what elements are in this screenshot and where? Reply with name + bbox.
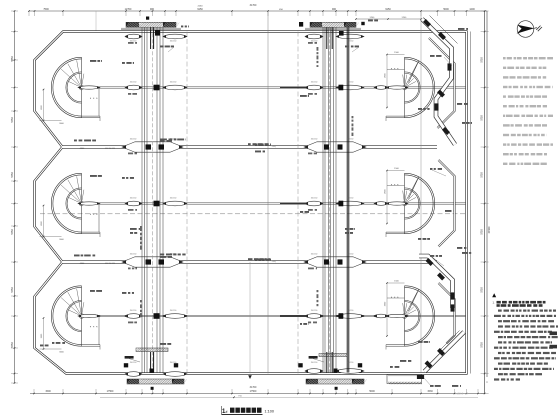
svg-text:5750: 5750: [481, 342, 484, 348]
svg-text:5750: 5750: [481, 229, 484, 235]
svg-text:150 150: 150 150: [311, 82, 318, 84]
svg-text:150 150: 150 150: [311, 139, 318, 141]
svg-text:150 150: 150 150: [347, 41, 354, 43]
svg-text:5750: 5750: [11, 229, 14, 235]
svg-text:150 150: 150 150: [347, 139, 354, 141]
svg-text:31700: 31700: [250, 386, 257, 389]
svg-text:150 150: 150 150: [347, 362, 354, 364]
svg-text:5000: 5000: [443, 8, 449, 11]
svg-text:5750: 5750: [481, 287, 484, 293]
svg-text:150 150: 150 150: [170, 310, 177, 312]
svg-text:150 150: 150 150: [311, 254, 318, 256]
svg-text:5750: 5750: [11, 172, 14, 178]
svg-text:150 150: 150 150: [311, 198, 318, 200]
svg-text:150 150 150: 150 150 150: [105, 263, 115, 265]
svg-text:150 150: 150 150: [130, 362, 137, 364]
svg-text:150 150: 150 150: [130, 198, 137, 200]
svg-text:150 150: 150 150: [347, 82, 354, 84]
svg-text:5000: 5000: [369, 390, 375, 393]
svg-text:5750: 5750: [481, 172, 484, 178]
svg-text:150 150: 150 150: [130, 82, 137, 84]
svg-text:150 150: 150 150: [170, 362, 177, 364]
svg-text:150 150: 150 150: [311, 310, 318, 312]
svg-text:17500: 17500: [250, 390, 257, 393]
svg-text:150 150: 150 150: [347, 254, 354, 256]
svg-text:31700: 31700: [250, 4, 257, 7]
svg-text:1200: 1200: [469, 8, 475, 11]
svg-text:5750: 5750: [11, 287, 14, 293]
svg-text:150 150: 150 150: [347, 198, 354, 200]
svg-text:150 150: 150 150: [130, 254, 137, 256]
svg-text:5750: 5750: [481, 115, 484, 121]
svg-text:2150: 2150: [198, 5, 204, 7]
svg-text:150 150: 150 150: [170, 41, 177, 43]
svg-text:34500: 34500: [488, 226, 491, 233]
svg-text:17500: 17500: [107, 390, 114, 393]
svg-text:1530: 1530: [427, 390, 433, 393]
svg-text:150 150: 150 150: [170, 82, 177, 84]
svg-text:900: 900: [150, 8, 155, 11]
svg-text:5750: 5750: [11, 342, 14, 348]
svg-text:1:100: 1:100: [265, 410, 275, 414]
svg-text:9150: 9150: [197, 8, 203, 11]
svg-text:150 150: 150 150: [347, 310, 354, 312]
svg-text:150 150 150: 150 150 150: [105, 148, 115, 150]
svg-text:5750: 5750: [11, 117, 14, 123]
svg-text:150 150: 150 150: [311, 362, 318, 364]
svg-text:1500: 1500: [45, 390, 51, 393]
svg-text:7500: 7500: [43, 8, 49, 11]
svg-text:5750: 5750: [481, 57, 484, 63]
svg-text:m22.2 - 4: m22.2 - 4: [455, 392, 468, 396]
svg-text:150 150: 150 150: [130, 139, 137, 141]
svg-text:150 150: 150 150: [130, 310, 137, 312]
svg-text:150 150: 150 150: [170, 198, 177, 200]
svg-text:1.: 1.: [493, 301, 495, 305]
svg-text:5750: 5750: [11, 56, 14, 62]
svg-text:900: 900: [332, 8, 337, 11]
svg-text:12700: 12700: [125, 8, 132, 11]
svg-text:9150: 9150: [385, 8, 391, 11]
svg-text:#: #: [226, 410, 228, 414]
